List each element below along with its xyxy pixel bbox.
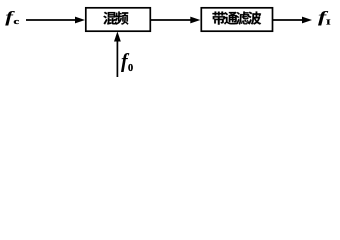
- wire input fc to mixer: [26, 19, 78, 21]
- wire local oscillator vertical: [116, 39, 118, 77]
- wire mixer to bandpass filter: [151, 19, 193, 21]
- block U1 mixer box: [86, 8, 151, 31]
- arrowhead output: [302, 17, 312, 24]
- arrowhead into mixer: [75, 17, 85, 24]
- svg-text:c: c: [14, 18, 20, 27]
- arrowhead LO into mixer: [114, 32, 121, 42]
- node f0 local oscillator label: [121, 50, 133, 74]
- arrowhead into bandpass filter: [190, 17, 200, 24]
- svg-text:0: 0: [128, 63, 133, 74]
- label 带通滤波 (bandpass filter): [212, 11, 261, 24]
- label 混频 (mixer): [103, 11, 128, 24]
- svg-text:I: I: [326, 18, 331, 27]
- wire output to fI: [273, 19, 304, 21]
- node fI output IF label: [318, 9, 331, 27]
- node fc input signal label: [5, 9, 19, 26]
- block U2 bandpass filter box: [201, 8, 272, 31]
